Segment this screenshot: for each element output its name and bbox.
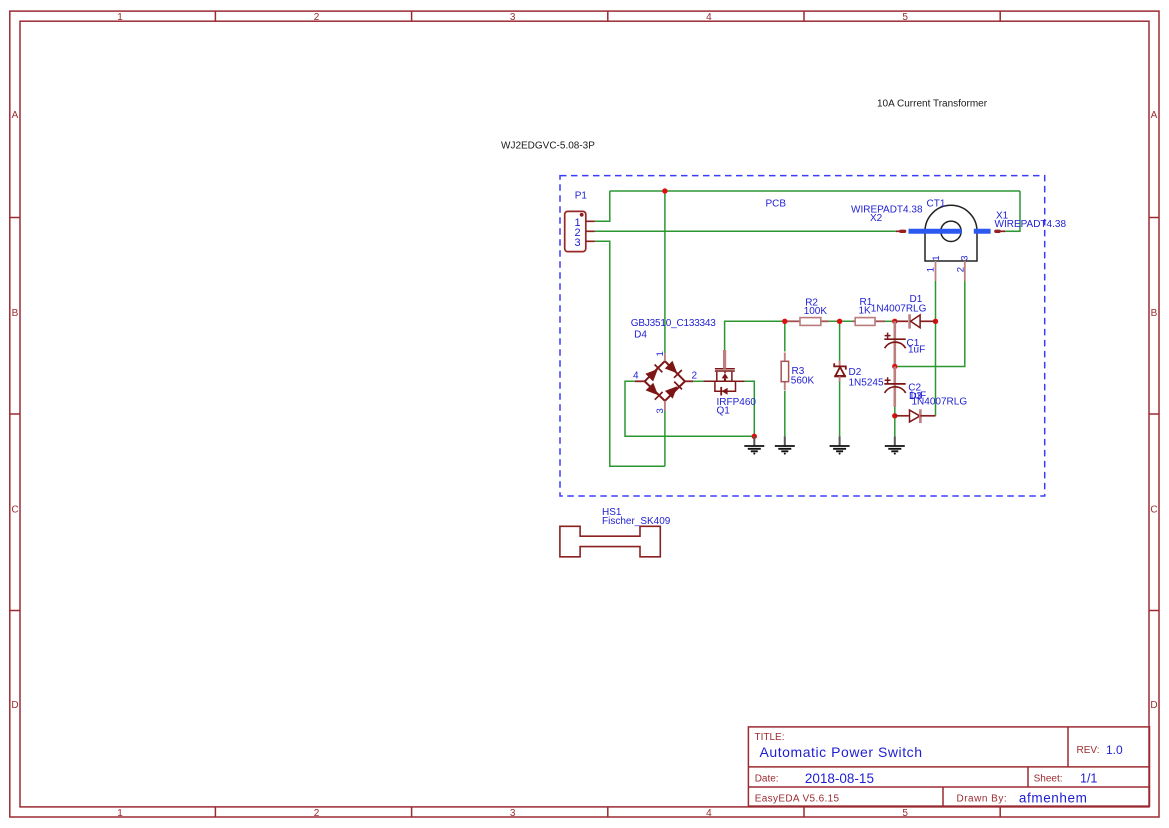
column tick marks top <box>215 11 1000 21</box>
svg-text:Drawn By:: Drawn By: <box>957 793 1008 804</box>
wire P1 pin3 down to bridge pin3 <box>595 241 665 466</box>
svg-text:A: A <box>12 110 19 121</box>
junction node top rail <box>662 188 667 193</box>
wire CT pin1 down to D1 node <box>935 281 937 416</box>
diode D3 <box>895 409 936 423</box>
row tick marks left <box>10 218 20 611</box>
svg-text:10A Current Transformer: 10A Current Transformer <box>877 98 988 109</box>
svg-text:1N4007RLG: 1N4007RLG <box>871 304 927 315</box>
svg-text:2: 2 <box>955 267 966 272</box>
junction source node <box>752 434 757 439</box>
svg-text:1: 1 <box>655 351 666 356</box>
svg-text:1.0: 1.0 <box>1106 743 1123 757</box>
svg-text:A: A <box>1151 110 1158 121</box>
svg-text:WJ2EDGVC-5.08-3P: WJ2EDGVC-5.08-3P <box>501 140 595 151</box>
svg-text:D: D <box>1150 700 1157 711</box>
D4 pin1 stub <box>664 353 666 361</box>
wirepad X1 stub <box>996 230 999 233</box>
ground at Q1 source <box>744 436 764 454</box>
row labels left <box>11 110 18 711</box>
D4 pin2 stub <box>685 380 693 382</box>
svg-text:3: 3 <box>574 237 580 249</box>
wire C2 bottom <box>894 407 896 436</box>
D4 pin3 stub <box>664 401 666 411</box>
capacitor C1 <box>884 321 905 366</box>
ground at R3 <box>775 436 795 454</box>
MOSFET Q1 <box>703 369 744 392</box>
wire D2 bottom to ground <box>839 382 841 437</box>
Q1 channel arrow <box>722 373 729 378</box>
zener diode D2 <box>834 361 846 382</box>
svg-text:1: 1 <box>117 12 123 23</box>
svg-text:C: C <box>11 505 18 516</box>
svg-text:Sheet:: Sheet: <box>1034 774 1063 785</box>
svg-text:1N4007RLG: 1N4007RLG <box>912 396 968 407</box>
CT1 primary thick blue wire right <box>974 229 991 234</box>
svg-text:3: 3 <box>655 408 666 413</box>
ground at D2 <box>830 436 850 454</box>
svg-text:X2: X2 <box>870 213 883 224</box>
wire right side down to X1 pad <box>1005 191 1020 231</box>
wire rail R1 right <box>885 320 895 322</box>
wire R3 bottom to ground <box>784 391 786 436</box>
svg-text:1N5245: 1N5245 <box>849 377 884 388</box>
D4 diode bottom-left <box>647 384 663 400</box>
resistor R3 <box>781 353 788 391</box>
D4 diode bottom-right <box>666 382 682 398</box>
column labels bottom <box>117 808 908 819</box>
svg-text:2: 2 <box>314 12 320 23</box>
svg-text:REV:: REV: <box>1077 745 1100 756</box>
column labels top <box>117 12 908 23</box>
wire node A vertical to bridge pin1 <box>664 191 666 353</box>
connector P1 <box>565 211 595 251</box>
svg-text:3: 3 <box>510 12 516 23</box>
D4 diode top-right <box>666 362 682 378</box>
wirepad X2 stub <box>896 230 900 232</box>
wire C1 bottom node to CT pin2 <box>895 281 965 367</box>
svg-text:B: B <box>1151 308 1158 319</box>
svg-text:WIREPADT4.38: WIREPADT4.38 <box>995 219 1067 230</box>
svg-text:EasyEDA V5.6.15: EasyEDA V5.6.15 <box>755 793 840 804</box>
current transformer CT1 body <box>925 205 977 261</box>
svg-text:2018-08-15: 2018-08-15 <box>805 771 874 786</box>
svg-text:D4: D4 <box>634 329 647 340</box>
svg-text:2: 2 <box>314 808 320 819</box>
heatsink HS1 outline <box>560 526 660 557</box>
wire X1 pad stub <box>1005 230 1020 232</box>
svg-text:Automatic Power Switch: Automatic Power Switch <box>760 744 923 760</box>
title block <box>748 727 1149 806</box>
svg-text:1: 1 <box>926 267 937 272</box>
wire bridge pin4 loop to source node <box>625 381 754 436</box>
svg-text:1: 1 <box>117 808 123 819</box>
ground at C2 <box>885 436 905 454</box>
wire P1 pin2 to X2 pad <box>595 230 896 232</box>
Q1 drain lead <box>723 350 726 369</box>
wire Q1 source to node <box>745 381 755 436</box>
junction rail at D2 <box>837 319 842 324</box>
svg-text:1uF: 1uF <box>908 345 925 356</box>
PCB sheet dashed boundary <box>560 176 1045 496</box>
svg-text:GBJ3510_C133343: GBJ3510_C133343 <box>631 318 716 329</box>
junction C2 bottom node <box>892 413 897 418</box>
svg-text:CT1: CT1 <box>927 198 946 209</box>
junction C1-C2 node <box>892 364 897 369</box>
svg-text:D2: D2 <box>849 367 862 378</box>
svg-text:B: B <box>12 308 19 319</box>
D4 diode top-left <box>646 365 662 381</box>
D4 pin4 stub <box>635 380 645 382</box>
junction rail at R3 <box>782 319 787 324</box>
svg-text:Date:: Date: <box>755 774 779 785</box>
wire bridge pin3 down <box>664 411 666 467</box>
svg-text:1: 1 <box>931 255 942 260</box>
bridge rectifier D4 diamond <box>645 361 685 401</box>
wire P1 pin1 to top rail <box>595 191 1020 466</box>
wire D4 pin2 to Q1 gate <box>693 380 703 382</box>
wire top rail <box>610 190 1020 192</box>
svg-text:C: C <box>1150 505 1157 516</box>
junction rail at C1 <box>892 319 897 324</box>
CT1 primary thick blue wire left <box>909 229 962 234</box>
svg-text:1/1: 1/1 <box>1080 771 1097 785</box>
resistor R1 <box>853 318 886 326</box>
wire D2 top <box>839 321 841 361</box>
svg-text:TITLE:: TITLE: <box>755 732 785 743</box>
svg-text:afmenhem: afmenhem <box>1019 791 1088 806</box>
wire R3 top <box>784 321 786 351</box>
resistor R2 <box>785 318 829 326</box>
column tick marks bottom <box>215 807 1000 817</box>
svg-text:4: 4 <box>706 12 712 23</box>
svg-text:Fischer_SK409: Fischer_SK409 <box>602 516 671 527</box>
svg-text:PCB: PCB <box>766 199 787 210</box>
svg-text:Q1: Q1 <box>717 405 731 416</box>
svg-text:D: D <box>11 700 18 711</box>
svg-text:4: 4 <box>633 371 639 382</box>
svg-text:5: 5 <box>902 12 908 23</box>
svg-text:4: 4 <box>706 808 712 819</box>
capacitor C2 <box>884 367 905 408</box>
svg-text:100K: 100K <box>804 306 828 317</box>
diode D1 <box>895 314 936 328</box>
wire rail R2 to D2 <box>829 320 853 322</box>
svg-text:P1: P1 <box>575 190 588 201</box>
svg-text:1K: 1K <box>859 306 872 317</box>
CT1 pin 1 stub <box>935 261 937 281</box>
svg-text:560K: 560K <box>791 375 815 386</box>
svg-text:2: 2 <box>692 371 698 382</box>
svg-text:5: 5 <box>902 808 908 819</box>
svg-text:3: 3 <box>960 255 971 260</box>
CT1 pin 3 stub <box>964 261 966 281</box>
row tick marks right <box>1149 218 1159 611</box>
svg-text:WIREPADT4.38: WIREPADT4.38 <box>851 204 923 215</box>
svg-text:3: 3 <box>510 808 516 819</box>
Q1 body diode <box>722 388 728 395</box>
junction rail at D1 cathode net <box>933 319 938 324</box>
wire Q1 drain to rail <box>725 321 786 350</box>
row labels right <box>1150 110 1157 711</box>
